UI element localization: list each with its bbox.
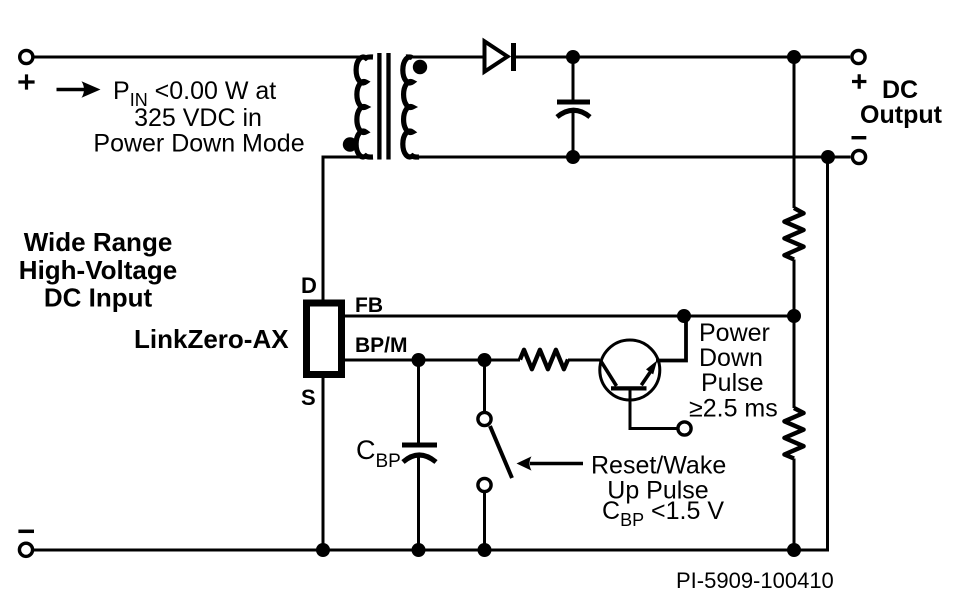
wire: R1 bottom to FB node: [793, 260, 796, 317]
wire: diode cathode to + output terminal: [514, 56, 851, 59]
wire: switch bottom contact to bottom rail: [483, 492, 486, 550]
resistor R1 (feedback divider upper): [784, 208, 803, 260]
svg-text:Output: Output: [860, 101, 943, 129]
value label: PIN <0.00 W at 325 VDC in Power Down Mode: [93, 77, 304, 158]
arrow: reset annotation arrow: [517, 456, 584, 470]
svg-text:≥2.5 ms: ≥2.5 ms: [689, 395, 778, 423]
junction: BP/M / CBP: [412, 353, 426, 367]
svg-text:S: S: [301, 385, 316, 410]
resistor R2 (feedback divider lower): [784, 408, 803, 459]
polarity label + (output): [852, 74, 866, 89]
svg-text:FB: FB: [355, 294, 383, 317]
capacitor CBP: [402, 360, 437, 550]
wire: Q1 emitter to FB node: [656, 316, 686, 361]
junction: C1 top / + rail: [566, 50, 580, 64]
wire: Q1 base lead to pulse terminal: [630, 389, 677, 429]
text: DC Output: [860, 76, 943, 129]
wire: BP/M pin to transistor: [344, 359, 520, 362]
wire: FB node to R2 top: [793, 316, 796, 408]
svg-text:Power: Power: [699, 319, 770, 347]
IC U1 LinkZero-AX body: [307, 303, 342, 375]
svg-text:Wide Range: Wide Range: [24, 227, 173, 257]
junction: source / bottom rail: [316, 543, 330, 557]
polarity label + (input): [18, 74, 34, 89]
junction: C1 bottom / - rail: [566, 150, 580, 164]
arrow: Pin annotation arrow: [57, 81, 101, 98]
text: Reset/Wake Up Pulse CBP <1.5 V: [591, 452, 726, 531]
junction: BP/M / switch: [478, 353, 492, 367]
transformer T1 secondary winding: [403, 57, 419, 157]
text: Wide Range High-Voltage DC Input: [19, 227, 177, 313]
transformer T1 core: [379, 53, 388, 160]
polarity label - (input): [18, 530, 34, 534]
wire: secondary top to diode anode: [410, 56, 483, 59]
transformer T1 primary winding: [356, 57, 373, 157]
diode D1: [485, 41, 514, 71]
switch SW blade: [490, 426, 512, 478]
switch SW bottom contact: [478, 478, 491, 491]
junction: switch / bottom rail: [478, 543, 492, 557]
svg-text:Pulse: Pulse: [701, 369, 764, 397]
svg-text:D: D: [301, 273, 317, 298]
wire: input + terminal to transformer primary top: [35, 56, 371, 59]
junction: FB line / transistor emitter: [677, 309, 691, 323]
capacitor C1 (output filter): [557, 57, 590, 157]
svg-text:Down: Down: [699, 344, 763, 372]
junction: FB node / divider tap: [787, 309, 801, 323]
junction: divider top / + rail: [787, 50, 801, 64]
wire: secondary bottom to - output terminal: [410, 156, 851, 159]
terminal: power down pulse input: [678, 422, 691, 435]
terminal: DC output -: [852, 150, 865, 163]
switch SW top contact: [478, 412, 491, 425]
transistor Q1: [600, 340, 660, 400]
svg-text:BP/M: BP/M: [355, 334, 408, 357]
polarity label - (output): [852, 136, 867, 139]
wire: + rail to R1 top: [793, 57, 796, 208]
svg-text:DC: DC: [882, 76, 918, 104]
wire: source pin S to bottom rail: [322, 375, 325, 551]
wire: R2 bottom to bottom rail: [793, 459, 796, 551]
junction: CBP / bottom rail: [412, 543, 426, 557]
svg-text:Power Down Mode: Power Down Mode: [93, 130, 304, 158]
wire: FB pin to divider tap: [344, 315, 794, 318]
polarity dot: T1 secondary: [413, 60, 427, 74]
wire: R3 to transistor base network: [568, 359, 600, 362]
text: Power Down Pulse >=2.5 ms: [689, 319, 778, 423]
junction: - rail to output - terminal: [821, 150, 835, 164]
svg-text:DC Input: DC Input: [44, 283, 153, 313]
svg-text:High-Voltage: High-Voltage: [19, 255, 177, 285]
wire: primary bottom to drain pin D: [323, 157, 370, 300]
terminal: DC output +: [852, 50, 865, 63]
svg-text:325 VDC in: 325 VDC in: [134, 104, 262, 132]
svg-text:PI-5909-100410: PI-5909-100410: [676, 568, 834, 593]
svg-text:Reset/Wake: Reset/Wake: [591, 452, 726, 480]
wire: BP/M to switch top contact: [483, 360, 486, 412]
svg-text:LinkZero-AX: LinkZero-AX: [134, 324, 289, 354]
wire: bottom rail to output - rail: [33, 157, 828, 550]
polarity dot: T1 primary: [343, 137, 357, 151]
terminal: DC input - (bottom-left): [19, 543, 32, 556]
junction: R2 / bottom rail: [787, 543, 801, 557]
terminal: DC input + (top-left): [20, 50, 33, 63]
resistor R3 (base series): [520, 350, 568, 369]
